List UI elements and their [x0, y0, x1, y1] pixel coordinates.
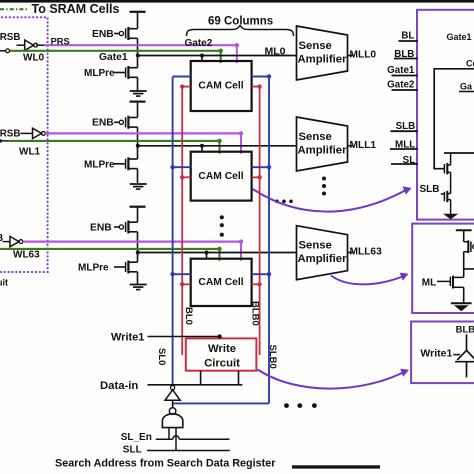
transistor ENB row 2 (PMOS)	[114, 226, 119, 228]
wire Write1	[148, 336, 220, 338]
wire Gate1 drop into CAM cell row 0	[220, 51, 222, 63]
wire: rail to ENB transistor row 0	[137, 12, 139, 29]
svg-text:Circuit: Circuit	[204, 357, 240, 369]
wire NAND input left (SL_En)	[168, 428, 170, 440]
wire Gate2 drop into CAM cell row 0	[236, 45, 238, 63]
svg-text:SLL: SLL	[123, 445, 142, 456]
top border bar	[0, 0, 474, 3]
NAND gate body (pointing up)	[162, 414, 182, 428]
wire Data-in	[148, 384, 243, 386]
CAM cell 1 box	[191, 152, 252, 201]
ground box2	[451, 302, 472, 304]
node Write1 to write circuit	[217, 334, 221, 338]
svg-text:PRSB: PRSB	[0, 233, 3, 244]
wire: ML junction to MLPre row 0	[137, 56, 139, 68]
op-amp: sense amplifier 1	[297, 117, 348, 171]
arrow curve 2: sense amp to ML detail box	[331, 276, 404, 285]
svg-text:Sense: Sense	[299, 240, 332, 252]
svg-text:Write1: Write1	[420, 348, 452, 360]
wire: inverter to NAND bubble	[172, 400, 174, 407]
wire Gate2 (magenta) row 2	[23, 241, 241, 243]
wire MLL1 output	[348, 145, 354, 147]
wire to ground box1	[450, 200, 452, 214]
node ML stub row 1	[200, 144, 204, 148]
svg-text:Data-in: Data-in	[100, 380, 138, 392]
svg-text:BL: BL	[401, 31, 414, 42]
bottom right bar	[292, 465, 380, 468]
svg-text:ML0: ML0	[265, 45, 286, 57]
transistor MLPre row 2 (NMOS)	[114, 266, 126, 268]
node BL stub CAM0	[180, 84, 184, 88]
wire: inverter input row 2	[3, 241, 11, 243]
wire Gate2 (magenta) row 0	[36, 44, 44, 46]
svg-text:WL63: WL63	[13, 250, 40, 261]
inverter WL driver row 1	[33, 128, 42, 138]
svg-text:Gate1: Gate1	[99, 52, 128, 63]
wire output stub box2	[464, 268, 474, 270]
transistor ENB row 1 (PMOS)	[114, 121, 119, 123]
op-amp: sense amplifier 2	[297, 226, 348, 280]
wire ML row 1 to sense amplifier	[138, 145, 297, 147]
wire NMOS to ground box2	[463, 287, 465, 303]
wire BL stub left CAM2	[182, 283, 191, 285]
row 0: VDD rail	[130, 11, 146, 13]
transistor NMOS box2 (ML gate)	[437, 280, 450, 282]
svg-text:Ce: Ce	[466, 58, 474, 68]
wire BLB0 (red vertical)	[259, 87, 261, 355]
wire Gate2 (magenta) row 1	[45, 132, 241, 134]
inverter (search line driver) pointing up	[171, 386, 175, 390]
svg-text:ENB: ENB	[92, 118, 114, 129]
svg-text:WL0: WL0	[23, 53, 45, 64]
wire SLB stub right CAM0	[252, 76, 269, 78]
svg-text:CAM Cell: CAM Cell	[198, 81, 243, 92]
svg-text:MLL0: MLL0	[350, 50, 377, 61]
inner cell box in box1	[434, 69, 474, 169]
inverter WL driver row 2	[10, 236, 19, 246]
node ML stub row 2	[205, 251, 209, 255]
wire BLB stub right CAM2	[252, 283, 260, 285]
svg-text:Gate1: Gate1	[387, 65, 415, 76]
wire BLB to buffer box3	[466, 334, 468, 350]
svg-text:Amplifier: Amplifier	[298, 253, 348, 265]
wire BL stub left CAM0	[182, 86, 191, 88]
bubble on WL0 left inverter	[6, 49, 10, 53]
wire between transistors box1	[450, 172, 452, 193]
node ML stub row 0	[200, 54, 204, 58]
svg-text:Sense: Sense	[299, 40, 332, 52]
svg-text:MLPre: MLPre	[78, 263, 109, 274]
ground row 1	[130, 183, 147, 185]
ellipsis vertical between CAM cells	[220, 215, 224, 219]
svg-text:SLB: SLB	[420, 184, 440, 195]
wire ML stub into CAM cell row 2	[206, 253, 208, 259]
wire: ML junction to MLPre row 2	[137, 253, 139, 263]
wire: MLPre to ground row 1	[137, 169, 139, 184]
ground arrow box1	[443, 214, 458, 220]
wire: MLPre to ground row 2	[137, 272, 139, 285]
svg-text:Gate2: Gate2	[387, 80, 415, 91]
wire ML row 0 to sense amplifier	[138, 55, 297, 57]
node BLB stub CAM1	[257, 175, 261, 179]
svg-text:CAM Cell: CAM Cell	[198, 277, 243, 288]
wire: WL0 left lead	[0, 50, 6, 52]
node Gate1 corner row 2	[217, 247, 221, 251]
wire ML stub into CAM cell row 0	[201, 56, 203, 62]
wire MLL0 output	[348, 55, 354, 57]
wire SL0 (blue vertical)	[172, 77, 174, 386]
transistor MLPre row 0 (NMOS)	[114, 72, 126, 74]
wire SL stub left CAM2	[173, 273, 191, 275]
svg-text:MLPre: MLPre	[84, 68, 115, 79]
node SLB stub CAM2	[267, 272, 271, 276]
detail box 3 (write buffer schematic)	[411, 322, 474, 384]
buffer triangle box3 (apex up)	[457, 350, 474, 360]
svg-text:To SRAM Cells: To SRAM Cells	[32, 2, 120, 16]
node BL stub CAM2	[180, 282, 184, 286]
ellipsis horizontal lower middle	[284, 403, 289, 408]
wire Gate1 drop into CAM cell row 2	[219, 249, 221, 261]
svg-text:Sense: Sense	[299, 131, 332, 143]
svg-text:WL1: WL1	[19, 147, 41, 158]
svg-text:Ga: Ga	[460, 81, 473, 91]
wire: ML junction to MLPre row 1	[137, 146, 139, 159]
svg-text:Amplifier: Amplifier	[298, 145, 348, 157]
row 1: VDD rail	[130, 100, 146, 102]
op-amp: sense amplifier 0	[297, 26, 348, 80]
node BLB stub CAM0	[257, 84, 261, 88]
node: ML junction row 1	[136, 144, 140, 148]
wire: rail to ENB transistor row 1	[137, 102, 139, 118]
arrow curve 1: CAM cell to detail box	[252, 189, 406, 212]
svg-text:cuit: cuit	[0, 278, 8, 288]
ground row 2	[130, 284, 147, 286]
ground row 0	[130, 90, 147, 92]
wire NAND input right (SLL)	[175, 428, 177, 451]
svg-text:MLPre: MLPre	[84, 159, 115, 170]
row 2: VDD rail	[130, 206, 146, 208]
node SL stub CAM1	[170, 165, 174, 169]
node Gate2 corner row 1	[239, 131, 243, 135]
wire PMOS to output box2	[463, 252, 465, 278]
svg-text:Gate1: Gate1	[447, 32, 472, 42]
wire Gate1 drop into CAM cell row 1	[219, 141, 221, 154]
wire: ENB to ML junction row 0	[137, 38, 139, 55]
svg-text:Write: Write	[208, 343, 236, 355]
wire: WL1 left lead	[0, 140, 9, 142]
transistor MLPre row 1 (NMOS)	[114, 163, 126, 165]
svg-text:Gate2: Gate2	[185, 38, 213, 49]
node Gate2 corner row 2	[239, 239, 243, 243]
node Gate2 corner row 0	[235, 43, 239, 47]
wire SLB0 bottom return to NAND output	[173, 402, 269, 404]
svg-text:SL_En: SL_En	[121, 432, 152, 443]
svg-text:PRS: PRS	[51, 36, 70, 46]
wire Gate2 drop into CAM cell row 2	[240, 242, 242, 261]
detail box 1 (CAM cell schematic)	[417, 10, 474, 220]
write circuit box	[186, 338, 257, 370]
svg-text:MLL63: MLL63	[350, 247, 383, 258]
transistor lower in box1 (SLB gate)	[443, 192, 445, 201]
wire ML row 2 to sense amplifier	[138, 252, 297, 254]
brace over 69 columns	[187, 26, 294, 37]
wire ML stub into CAM cell row 1	[201, 146, 203, 152]
wire: inverter input row 0	[17, 44, 25, 46]
wire SLB stub right CAM2	[252, 273, 269, 275]
transistor PMOS box2 (mirrored)	[464, 241, 469, 243]
node: ML junction row 2	[136, 251, 140, 255]
wire buffer output box3	[466, 362, 468, 377]
ellipsis horizontal near curve 1	[275, 200, 279, 204]
svg-text:PRSB: PRSB	[0, 32, 20, 43]
wire MLL2 output	[348, 252, 354, 254]
transistor upper in box1	[443, 164, 445, 173]
wire SLB stub right CAM1	[252, 166, 269, 168]
svg-text:Write1: Write1	[111, 332, 144, 344]
svg-text:PRSB: PRSB	[0, 128, 20, 139]
node SLB stub CAM0	[267, 74, 271, 78]
wire SL stub left CAM0	[173, 76, 191, 78]
wire: ENB to ML junction row 1	[137, 127, 139, 146]
wire BLB stub right CAM0	[252, 86, 260, 88]
wire: write circuit bottom pins	[200, 371, 202, 385]
svg-text:CAM Cell: CAM Cell	[198, 171, 243, 182]
node SL stub CAM2	[170, 272, 174, 276]
wire BL stub left CAM1	[182, 176, 191, 178]
wire Gate2 drop into CAM cell row 1	[240, 133, 242, 153]
svg-text:MLL1: MLL1	[350, 140, 377, 151]
arrow curve 3: write circuit to Write1 detail box	[258, 370, 405, 389]
wire Gate1 (green) row 1	[9, 140, 219, 142]
wire Gate1 (green) row 0	[9, 50, 220, 52]
node SLB stub CAM1	[267, 165, 271, 169]
dotted box: WL/PRS driver circuit	[0, 17, 48, 272]
svg-text:ML: ML	[422, 277, 436, 288]
svg-text:Amplifier: Amplifier	[298, 54, 348, 66]
wire BLB stub right CAM1	[252, 176, 260, 178]
svg-text:SLB0: SLB0	[267, 345, 278, 369]
wire Write1 enable lead box3	[453, 354, 460, 356]
ellipsis vertical below sense amplifier 1	[322, 177, 326, 181]
node Gate1 corner row 1	[217, 139, 221, 143]
node: ML junction row 0	[136, 54, 140, 58]
svg-text:BLB: BLB	[456, 325, 474, 336]
wire: rail to ENB transistor row 2	[137, 207, 139, 223]
wire BL0 (red vertical)	[181, 87, 183, 355]
svg-text:SL0: SL0	[156, 348, 167, 365]
wire SLB0 (blue vertical)	[268, 77, 270, 403]
detail box 2 (ML inverter schematic)	[412, 224, 474, 313]
wire: MLPre to ground row 0	[137, 77, 139, 91]
NAND gate output bubble	[169, 408, 176, 415]
CAM cell 2 box	[191, 259, 252, 306]
VDD rail box2	[456, 229, 472, 231]
svg-text:BL0: BL0	[183, 307, 194, 325]
node BL stub CAM1	[180, 175, 184, 179]
CAM cell 0 box	[191, 61, 252, 111]
wire SL stub left CAM1	[173, 166, 191, 168]
wire SLL	[147, 450, 230, 452]
svg-text:Search Address from Search Dat: Search Address from Search Data Register	[55, 458, 276, 470]
wire SL_En with hop	[156, 438, 173, 440]
svg-text:ENB: ENB	[90, 222, 112, 233]
node BLB stub CAM2	[257, 282, 261, 286]
svg-text:ENB: ENB	[92, 29, 114, 40]
wire Gate1 (green) row 2	[0, 248, 220, 250]
wire: ENB to ML junction row 2	[137, 232, 139, 253]
transistor ENB row 0 (PMOS)	[114, 33, 119, 35]
wire: inverter input row 1	[20, 132, 32, 134]
wire: dashed line To SRAM Cells	[0, 8, 28, 10]
inverter WL driver row 0	[25, 40, 34, 50]
node Gate1 corner row 0	[219, 49, 223, 53]
